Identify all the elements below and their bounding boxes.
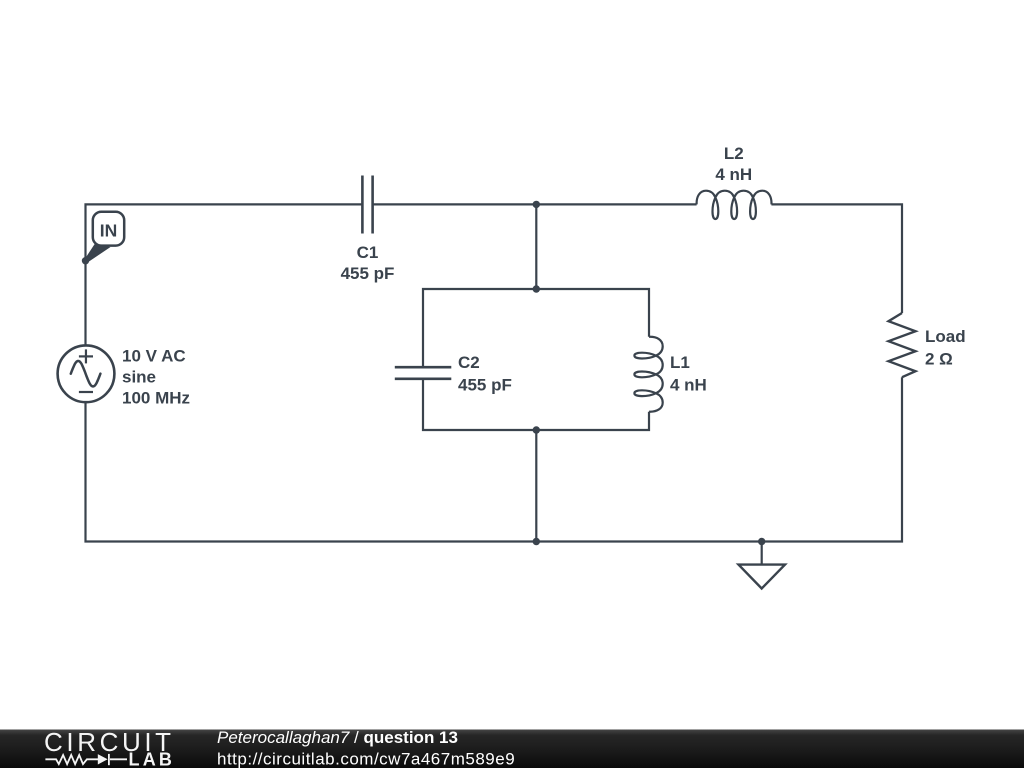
svg-text:4 nH: 4 nH <box>715 165 752 184</box>
svg-text:L1: L1 <box>670 353 690 372</box>
svg-text:http://circuitlab.com/cw7a467m: http://circuitlab.com/cw7a467m589e9 <box>217 750 515 768</box>
svg-text:100 MHz: 100 MHz <box>122 389 190 408</box>
svg-text:455 pF: 455 pF <box>341 264 395 283</box>
svg-text:4 nH: 4 nH <box>670 375 707 394</box>
svg-text:IN: IN <box>100 221 118 241</box>
svg-text:C1: C1 <box>357 243 379 262</box>
svg-text:2 Ω: 2 Ω <box>925 349 953 368</box>
svg-text:Load: Load <box>925 327 966 346</box>
svg-text:Peterocallaghan7 / question 13: Peterocallaghan7 / question 13 <box>217 728 458 747</box>
svg-text:LAB: LAB <box>129 749 176 768</box>
svg-text:455 pF: 455 pF <box>458 375 512 394</box>
svg-text:10 V AC: 10 V AC <box>122 346 186 365</box>
svg-text:L2: L2 <box>724 144 744 163</box>
svg-text:C2: C2 <box>458 353 480 372</box>
svg-text:sine: sine <box>122 368 156 387</box>
